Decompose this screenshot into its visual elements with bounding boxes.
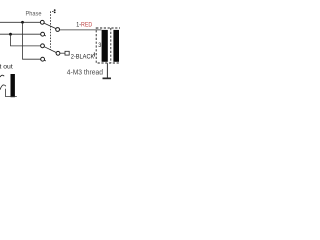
switch contact C2 xyxy=(41,32,45,36)
svg-text:3: 3 xyxy=(98,43,102,49)
terminal bar 1 xyxy=(102,30,108,62)
connector dashed box xyxy=(96,28,124,63)
wire phase top xyxy=(0,21,40,23)
switch arm pole3 xyxy=(44,47,56,53)
wire dropper A to contact 4 xyxy=(23,22,41,59)
gang dashed link xyxy=(51,12,54,50)
svg-text:Phase: Phase xyxy=(26,10,42,18)
thermal bar xyxy=(11,74,15,97)
svg-text:t out: t out xyxy=(0,64,13,71)
wire red output xyxy=(59,29,101,31)
terminal box on black wire xyxy=(65,51,69,55)
switch contact C1 xyxy=(40,20,44,24)
connector dashed divider xyxy=(110,28,112,63)
tick after 2-BLACK xyxy=(93,52,95,56)
wire phase second xyxy=(0,33,41,35)
node junction A xyxy=(21,21,24,24)
switch arm stub pole2 xyxy=(44,35,46,36)
cutout arc upper xyxy=(0,75,4,77)
switch arm pole1 xyxy=(44,23,56,29)
terminal bar 2 xyxy=(113,30,119,62)
switch contact B2 xyxy=(56,51,60,55)
switch contact B1 xyxy=(56,28,60,32)
svg-text:4-M3 thread: 4-M3 thread xyxy=(67,68,103,76)
switch contact C3 xyxy=(41,44,45,48)
gang link dot upper xyxy=(54,9,56,11)
wire dropper B to contact 3 xyxy=(11,34,41,46)
screw head xyxy=(103,78,112,80)
switch contact C4 xyxy=(41,57,45,61)
switch arm stub pole4 xyxy=(44,60,46,61)
wire L bottom left xyxy=(6,89,17,97)
cutout arc lower xyxy=(0,85,6,90)
svg-text:1-RED: 1-RED xyxy=(76,21,92,29)
wire black output xyxy=(60,52,65,54)
node junction B xyxy=(9,33,12,36)
gang link dot lower xyxy=(54,12,56,14)
svg-text:2-BLACK: 2-BLACK xyxy=(71,53,95,61)
screw shaft xyxy=(106,63,108,78)
